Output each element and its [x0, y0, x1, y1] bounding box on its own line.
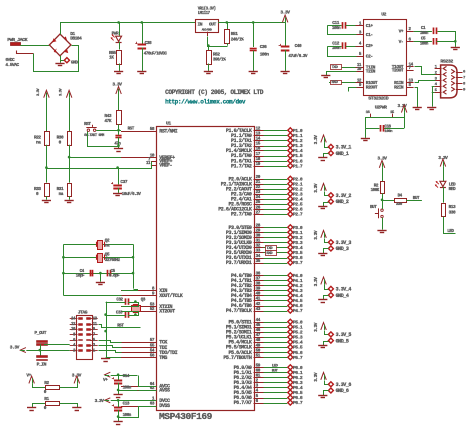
- svg-text:ST3232CD: ST3232CD: [368, 96, 388, 102]
- svg-text:6.8pF: 6.8pF: [109, 274, 120, 279]
- svg-text:P5.0: P5.0: [293, 319, 303, 325]
- ground crystal rail: [101, 358, 110, 360]
- svg-text:D4: D4: [398, 194, 403, 199]
- wire T1OUT to DB9 pin 2: [415, 67, 436, 75]
- supply 3.3V arrow at regulator output: [280, 9, 290, 22]
- capacitor C18 100n: [381, 125, 394, 134]
- wire gnd to R1: [33, 404, 46, 408]
- node GND pad: [60, 58, 78, 66]
- svg-text:AVSS: AVSS: [159, 388, 170, 394]
- pin 32 P3.4/UTXD0 of U1 with pad: [226, 244, 303, 251]
- svg-text:P3.7: P3.7: [293, 260, 303, 266]
- pin 2 P6.3/A3 of U1 with pad: [234, 379, 303, 386]
- ground pad group 1: [318, 157, 327, 159]
- svg-text:RST: RST: [128, 126, 135, 131]
- pin 10 T2IN of U2: [356, 67, 376, 75]
- svg-text:47K: 47K: [104, 118, 111, 124]
- svg-text:U2PWR: U2PWR: [375, 105, 387, 111]
- pin 42 P4.6/TB6 of U1 with pad: [231, 302, 303, 309]
- svg-text:P6.2: P6.2: [293, 375, 303, 381]
- ground right of R1: [72, 407, 81, 409]
- svg-text:C37: C37: [120, 179, 127, 185]
- svg-text:http://www.olimex.com/dev: http://www.olimex.com/dev: [165, 98, 246, 105]
- svg-text:0: 0: [44, 389, 47, 395]
- wire R13 to LED net: [444, 217, 456, 234]
- connector RS232 DB9: [435, 59, 466, 98]
- diode bridge D1 DB104: [49, 31, 82, 56]
- node 3.3V_2 pad: [328, 193, 351, 199]
- pin 12 R1OUT of U2: [356, 78, 378, 86]
- wire TMS: [106, 357, 121, 359]
- junction VREF node: [45, 166, 48, 169]
- svg-text:3.3V_3: 3.3V_3: [336, 240, 352, 246]
- svg-text:Q5: Q5: [105, 252, 110, 257]
- wire U2PWR loop: [365, 113, 404, 129]
- svg-text:4: 4: [73, 344, 76, 348]
- pin 19 P1.7/TA2 of U1 with pad: [231, 162, 303, 169]
- svg-text:100n: 100n: [420, 43, 429, 47]
- svg-text:VREF-: VREF-: [159, 163, 172, 169]
- capacitor C33: [116, 310, 129, 318]
- pin 45 P5.1/SIMO1 of U1 with pad: [226, 323, 303, 330]
- supply 3.3V arrow pad group 3: [313, 230, 326, 240]
- pin 59 P6.0/A0 of U1 with pad: [234, 363, 303, 370]
- wire R2OUT stub: [349, 88, 357, 92]
- svg-text:C5: C5: [421, 36, 426, 41]
- pin 58 RST/NMI of U1: [121, 127, 178, 135]
- wire R2 to 3.3V arrow: [60, 384, 78, 388]
- wire DVSS loop: [119, 407, 157, 418]
- pin 39 P4.3/TB3 of U1 with pad: [231, 287, 303, 294]
- wire bridge minus down: [60, 56, 62, 63]
- pin 17 P1.5/TA0 of U1 with pad: [231, 152, 303, 159]
- svg-text:3.3V_2: 3.3V_2: [336, 193, 352, 199]
- pin 44 P5.0/STE1 of U1 with pad: [228, 318, 302, 325]
- junction C32 right: [134, 300, 137, 303]
- pin 38 P4.2/TB2 of U1 with pad: [231, 282, 303, 289]
- label 6VDC 4.5VAC: [5, 57, 19, 68]
- wire 3.3V rail to C40: [285, 22, 287, 46]
- svg-text:100n: 100n: [260, 51, 270, 57]
- supply 3.3V arrow pad group 5: [313, 322, 326, 332]
- ground below R55: [114, 71, 123, 73]
- svg-text:P2.7/TA0: P2.7/TA0: [231, 212, 252, 218]
- pin 56 TMS of U1: [121, 354, 167, 362]
- capacitor C5 6.8pF: [108, 269, 121, 279]
- ground pad group 2: [318, 206, 327, 208]
- svg-text:P6.7: P6.7: [293, 400, 303, 406]
- svg-text:GND_4: GND_4: [336, 293, 349, 299]
- resistor R51 240/1%: [225, 30, 245, 44]
- svg-text:P3.2: P3.2: [293, 235, 303, 241]
- svg-text:LED: LED: [447, 229, 454, 234]
- svg-text:3.3V: 3.3V: [10, 344, 20, 350]
- pin 36 P4.0/TB0 of U1 with pad: [231, 271, 303, 278]
- svg-text:P2.5: P2.5: [293, 202, 303, 208]
- supply 3.3V arrow at RST: [112, 82, 122, 94]
- node GND_2 pad: [328, 199, 348, 205]
- svg-text:P1.4: P1.4: [293, 148, 303, 154]
- svg-text:3.3V: 3.3V: [60, 88, 64, 96]
- svg-text:P1.7: P1.7: [293, 163, 303, 169]
- wire 3.3V to R22: [46, 98, 48, 131]
- svg-text:GND_3: GND_3: [336, 246, 349, 252]
- wire GND_4 to ground: [324, 296, 329, 300]
- wire cap row to ground: [100, 273, 102, 282]
- supply 3.3V arrow U2PWR: [401, 105, 407, 112]
- junction C37 tap: [116, 166, 119, 169]
- svg-text:3.3V: 3.3V: [313, 277, 319, 287]
- svg-text:18pF: 18pF: [76, 274, 85, 279]
- wire V+ to R2: [33, 384, 46, 388]
- svg-text:V+: V+: [103, 377, 108, 383]
- wire to XOUT: [64, 295, 122, 297]
- junction mid left: [62, 256, 65, 259]
- capacitor C12 100n: [332, 40, 346, 51]
- wire GND_1 to ground: [324, 154, 329, 158]
- svg-text:390/1%: 390/1%: [213, 57, 226, 62]
- svg-text:COPYRIGHT (C) 2005, OLIMEX LTD: COPYRIGHT (C) 2005, OLIMEX LTD: [165, 89, 264, 96]
- resistor R52 390/1%: [207, 51, 227, 65]
- wire jack tip to bridge AC2: [34, 46, 79, 72]
- pin 18 P1.6/TA1 of U1 with pad: [231, 157, 303, 164]
- svg-text:RST/NMI: RST/NMI: [159, 129, 177, 135]
- svg-text:P1.5: P1.5: [293, 153, 303, 159]
- ground U2PWR: [361, 138, 370, 140]
- pin 53 XT2IN of U1: [121, 302, 173, 310]
- svg-text:P1.7/TA2: P1.7/TA2: [231, 163, 252, 169]
- svg-text:P_IN: P_IN: [37, 362, 47, 368]
- svg-text:6: 6: [463, 71, 466, 75]
- pin 48 P5.4/MCLK of U1 with pad: [228, 338, 302, 345]
- svg-text:32768Hz: 32768Hz: [105, 258, 121, 263]
- resistor R2 0: [44, 380, 60, 395]
- wire C36 to ground: [253, 51, 255, 71]
- svg-text:P6.4: P6.4: [293, 385, 303, 391]
- ground below RST cap: [114, 148, 123, 150]
- pin 40 P4.4/TB4 of U1 with pad: [231, 292, 303, 299]
- svg-text:P3.5: P3.5: [293, 250, 303, 256]
- wire gnd rail down: [455, 41, 457, 47]
- svg-text:XOUT/TCLK: XOUT/TCLK: [159, 293, 183, 299]
- svg-text:C2-: C2-: [366, 54, 373, 60]
- wire R22 node down to R33: [46, 168, 48, 183]
- svg-text:DVSS: DVSS: [159, 403, 170, 409]
- wire rail to R51: [227, 22, 229, 29]
- junction C14 top: [117, 373, 120, 376]
- node GND_3 pad: [328, 246, 348, 252]
- resistor R31 na: [57, 184, 72, 198]
- pin 5 C2- of U2: [356, 52, 373, 60]
- pin 2 V+ of U2: [399, 27, 414, 35]
- svg-text:C1-: C1-: [366, 32, 373, 38]
- wire R30 to VEREF+ net: [69, 145, 71, 157]
- wire crystal top: [63, 244, 133, 246]
- pin 7 T2OUT of U2: [392, 66, 414, 74]
- svg-text:0: 0: [44, 405, 47, 411]
- svg-text:U2: U2: [381, 12, 386, 18]
- crystal Q3: [132, 297, 146, 312]
- capacitor C13 100n: [112, 401, 132, 418]
- svg-text:RST: RST: [84, 122, 91, 127]
- pin 43 P4.7/TBCLK of U1 with pad: [226, 307, 303, 314]
- wire JTAG pin 3 to TDI: [99, 346, 122, 348]
- wire V- to C5: [414, 41, 432, 43]
- svg-text:1: 1: [93, 349, 96, 353]
- pin 6 V- of U2: [399, 37, 414, 45]
- svg-text:R2IN: R2IN: [394, 85, 404, 91]
- junction C13 bottom: [117, 415, 120, 418]
- capacitor C38 470uF/16VDC: [135, 40, 167, 57]
- svg-text:9: 9: [463, 88, 466, 92]
- pin 29 P3.1/SIMO0 of U1 with pad: [226, 229, 303, 236]
- pin 13 P1.1/TA0 of U1 with pad: [231, 132, 303, 139]
- resistor R22 na: [34, 132, 50, 146]
- svg-text:P_OUT: P_OUT: [34, 330, 46, 336]
- wire VREF net to C37: [118, 168, 120, 185]
- pin 25 P2.5/ROSC of U1 with pad: [228, 200, 302, 207]
- svg-text:470uF/16VDC: 470uF/16VDC: [144, 52, 168, 57]
- pin 5 P6.6/A6 of U1 with pad: [234, 394, 303, 401]
- wire C1 to gnd rail: [438, 32, 456, 42]
- pin 3 P6.4/A4 of U1 with pad: [234, 384, 303, 391]
- wire C5 to gnd rail: [437, 41, 456, 43]
- svg-text:GND_1: GND_1: [336, 151, 349, 157]
- junction C33 right: [134, 313, 137, 316]
- connector JTAG 2x7: [70, 310, 98, 360]
- supply 3.3V arrow pad group 1: [313, 135, 326, 145]
- wire RXD to R1OUT: [329, 82, 356, 84]
- svg-text:BUT: BUT: [370, 205, 377, 210]
- pin 35 P3.7/URXD1 of U1 with pad: [226, 259, 303, 266]
- pin 22 P2.2/CAOUT of U1 with pad: [226, 185, 303, 192]
- wire P_OUT to P_IN vertical: [40, 344, 42, 356]
- ground below C14: [114, 394, 123, 396]
- wire JTAG pin 5 to TCK: [99, 341, 122, 343]
- pin 12 P1.0/TACLK of U1 with pad: [226, 127, 303, 134]
- wire 3.3V to R30: [69, 98, 71, 131]
- wire right rail crystals: [133, 244, 135, 288]
- ground pad group 6: [318, 395, 327, 397]
- svg-text:4: 4: [359, 42, 362, 47]
- wire C33 row: [106, 315, 136, 317]
- pin 9 XOUT/TCLK of U1: [121, 292, 184, 300]
- pin 26 P2.6/ADC12CLK of U1 with pad: [218, 205, 303, 212]
- wire VREF- hook: [151, 165, 153, 168]
- wire 3.3V to pad 3.3V_6: [325, 381, 329, 385]
- wire VEREF+ to U1: [69, 157, 121, 159]
- wire 3.3V to pad 3.3V_4: [325, 285, 329, 290]
- wire rail to PWR LED: [119, 22, 121, 35]
- wire C38 to ground: [142, 48, 144, 71]
- ground below R2IN: [413, 107, 422, 109]
- pin 30 P3.2/SOMI0 of U1 with pad: [226, 234, 303, 241]
- junction at C36: [252, 21, 255, 24]
- svg-text:100n: 100n: [332, 26, 341, 31]
- pin 15 P1.3/TA2 of U1 with pad: [231, 142, 303, 149]
- ground below C37: [113, 193, 122, 195]
- junction BUT node: [381, 199, 384, 202]
- svg-text:3.3V: 3.3V: [313, 372, 319, 382]
- supply 3.3V arrow at BUT: [377, 155, 387, 167]
- svg-text:100n: 100n: [384, 130, 393, 134]
- supply 3.3V arrow above R22: [37, 88, 49, 98]
- ground below C36: [249, 71, 258, 73]
- svg-text:GND_5: GND_5: [336, 338, 349, 344]
- label TXD on P3.4: [266, 246, 277, 251]
- label RXD on P3.5: [266, 251, 277, 256]
- supply V+ arrow left at AVCC: [103, 372, 110, 383]
- svg-text:3.3V_5: 3.3V_5: [336, 332, 352, 338]
- svg-text:330: 330: [449, 210, 456, 216]
- wire VREF net to U1: [47, 162, 152, 169]
- pin 3 C1- of U2: [356, 31, 373, 39]
- wire GND_5 to ground: [324, 342, 329, 346]
- svg-text:C40: C40: [295, 43, 302, 49]
- svg-text:VR1(3.3V): VR1(3.3V): [198, 6, 216, 11]
- svg-text:na: na: [36, 141, 41, 146]
- ground below C40: [281, 71, 290, 73]
- svg-text:V+: V+: [399, 28, 404, 34]
- capacitor C11 100n: [332, 20, 347, 31]
- connector PWR_JACK: [7, 37, 33, 54]
- junction gnd rail mid: [104, 330, 107, 333]
- svg-text:8: 8: [463, 83, 466, 87]
- resistor R13 330: [442, 204, 457, 217]
- pushbutton BUT: [370, 205, 383, 218]
- svg-text:ADJ/GND: ADJ/GND: [202, 27, 212, 31]
- wire to XIN: [122, 290, 138, 291]
- svg-text:16: 16: [366, 111, 371, 115]
- svg-text:47uF/6.3V: 47uF/6.3V: [288, 54, 308, 59]
- svg-text:U1: U1: [166, 120, 171, 126]
- svg-text:P4.2: P4.2: [293, 283, 303, 289]
- svg-text:GND_6: GND_6: [336, 388, 349, 394]
- svg-text:C1: C1: [421, 26, 426, 31]
- wire GND_2 to ground: [324, 203, 329, 207]
- pin 20 P2.0/ACLK of U1 with pad: [228, 175, 302, 182]
- wire C11 loop C1+ C1-: [327, 26, 356, 35]
- svg-text:R2: R2: [44, 380, 49, 386]
- pushbutton RST SW-TAKT: [84, 122, 105, 138]
- wire P_OUT to JTAG pin 4: [44, 344, 70, 346]
- svg-text:C14: C14: [123, 374, 130, 379]
- wire ADJ to divider: [208, 37, 228, 47]
- svg-text:RS232: RS232: [440, 59, 453, 65]
- svg-text:R2OUT: R2OUT: [366, 85, 378, 91]
- junction RST node: [117, 129, 120, 132]
- svg-text:P5.2: P5.2: [293, 330, 303, 336]
- wire C14 to AVSS: [118, 375, 156, 395]
- svg-text:P3.0: P3.0: [293, 225, 303, 231]
- svg-text:T2IN: T2IN: [366, 69, 376, 75]
- svg-text:9: 9: [93, 328, 96, 332]
- ground at T2IN: [321, 75, 330, 77]
- svg-text:P5.7: P5.7: [293, 355, 303, 361]
- resistor R1 0: [44, 396, 60, 411]
- svg-text:R13: R13: [449, 204, 456, 210]
- wire crystal mid: [63, 257, 133, 259]
- capacitor C32: [116, 297, 128, 304]
- svg-text:P5.5: P5.5: [293, 345, 303, 351]
- crystal Q5 32768Hz: [97, 252, 121, 263]
- wire 3.3V to LED: [443, 167, 445, 182]
- label R55: [109, 50, 116, 61]
- pin 55 TDI of U1: [121, 343, 167, 351]
- wire V+ to AVCC: [111, 376, 157, 387]
- capacitor C36 100n: [250, 44, 270, 57]
- svg-text:P4.4: P4.4: [293, 293, 303, 299]
- ground below C4 C5: [96, 282, 105, 284]
- capacitor C5 100n: [420, 36, 437, 46]
- wire TXD to T1IN: [330, 67, 355, 69]
- wire C40 to ground: [285, 50, 287, 71]
- pin 33 P3.5/URXD0 of U1 with pad: [226, 249, 303, 256]
- wire 3.3V to pad 3.3V_3: [325, 239, 329, 243]
- capacitor C4 18pF: [76, 269, 93, 279]
- node 3.3V_3 pad: [328, 240, 351, 246]
- svg-text:LM1117: LM1117: [198, 12, 211, 16]
- junction cap row left: [62, 272, 65, 275]
- pin 41 P4.5/TB5 of U1 with pad: [231, 297, 303, 304]
- wire rail to C38: [142, 22, 144, 44]
- svg-text:GND_2: GND_2: [336, 199, 349, 205]
- ground below R33: [42, 200, 51, 202]
- wire 3.3V to R4 pullup: [382, 168, 384, 181]
- node 3.3V_4 pad: [328, 286, 351, 292]
- wire DB9 pins 4 5 to ground: [432, 86, 435, 106]
- capacitor C37 10uF/6.3V: [111, 179, 141, 197]
- wire to XT2OUT: [122, 312, 139, 316]
- svg-text:7: 7: [463, 77, 466, 81]
- resistor R2 100K at BUT: [371, 182, 385, 194]
- node 3.3V_6 pad: [328, 382, 351, 388]
- svg-text:na: na: [59, 192, 64, 197]
- wire R4 to BUT node: [382, 193, 384, 200]
- pin 63 DVSS of U1: [121, 402, 170, 410]
- pin 14 P1.2/TA1 of U1 with pad: [231, 137, 303, 144]
- svg-text:RED: RED: [449, 186, 456, 192]
- svg-text:P2.0: P2.0: [293, 176, 303, 182]
- pin 6 P6.7/A7 of U1 with pad: [234, 399, 303, 406]
- svg-text:P1.0: P1.0: [293, 128, 303, 134]
- svg-text:GND: GND: [71, 59, 78, 65]
- ground below C1 C5: [451, 47, 460, 49]
- supply 3.3V arrow at LED: [438, 155, 448, 166]
- supply 3.3V arrow left at DVCC: [105, 398, 111, 403]
- svg-text:P1.2: P1.2: [293, 138, 303, 144]
- resistor R33 0: [34, 184, 50, 198]
- svg-text:100K: 100K: [371, 188, 380, 193]
- capacitor C40 47uF/6.3V: [279, 43, 308, 59]
- pin 4 C2+ of U2: [356, 42, 374, 50]
- pin 15 tick: [390, 111, 395, 117]
- supply V+ arrow bottom left: [26, 373, 34, 384]
- svg-text:P3.4: P3.4: [293, 245, 303, 251]
- pin 11 T1IN of U2: [356, 63, 376, 71]
- svg-text:P3.7/URXD1: P3.7/URXD1: [226, 260, 252, 266]
- node GND_6 pad: [328, 388, 348, 394]
- wire 3.3V to pad 3.3V_1: [325, 143, 329, 148]
- wire LED to R13: [443, 187, 445, 203]
- wire R1 to ground right: [60, 404, 78, 408]
- svg-text:R51: R51: [231, 31, 238, 37]
- svg-text:P4.7/TBCLK: P4.7/TBCLK: [226, 308, 253, 314]
- wire R2IN to ground: [415, 88, 418, 108]
- junction mid right: [132, 256, 135, 259]
- svg-text:P6.7/A7: P6.7/A7: [234, 400, 252, 406]
- wire C13 down: [118, 400, 120, 421]
